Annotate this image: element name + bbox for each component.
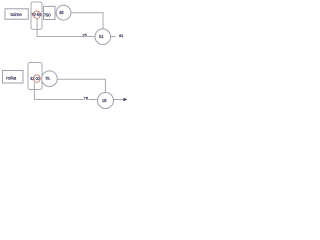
tall box B "72-56": [31, 2, 42, 29]
red circle around 56: [34, 11, 41, 19]
box A2 "roika" (bottom-left input box): [3, 71, 24, 84]
svg-text:48: 48: [59, 10, 64, 15]
circle 18: [98, 93, 114, 109]
circle 51: [95, 29, 111, 45]
circle 75: [42, 71, 58, 87]
svg-text:51: 51: [99, 34, 104, 39]
svg-text:75: 75: [45, 76, 50, 81]
svg-text:25: 25: [82, 32, 87, 37]
wire out of circle 51 right: [111, 36, 116, 38]
wire from circle 48 right, down to circle 51: [71, 13, 103, 29]
label 76 on wire: [83, 95, 88, 100]
box A "toime" (top-left input box): [5, 9, 28, 19]
svg-text:42-33: 42-33: [30, 76, 41, 81]
svg-text:76: 76: [84, 96, 89, 101]
svg-text:toime: toime: [10, 12, 22, 17]
wire from circle 75 right, down to circle 18: [57, 79, 105, 92]
wire from red circle 33 down and right to circle 18: [34, 82, 97, 99]
svg-text:790: 790: [44, 12, 52, 17]
label 25 on wire: [82, 33, 87, 38]
box C "790": [44, 6, 56, 19]
circle 48: [56, 5, 71, 20]
red circle around 33: [34, 75, 41, 83]
wire from red circle 56 down and right to circle 51: [37, 18, 95, 36]
svg-text:roika: roika: [6, 76, 17, 81]
svg-text:81: 81: [119, 33, 124, 38]
svg-text:18: 18: [102, 98, 107, 103]
tall box B2 "42-33": [28, 63, 42, 90]
arrowhead: [124, 98, 128, 101]
wire out of circle 18 right with arrowhead: [114, 99, 125, 101]
